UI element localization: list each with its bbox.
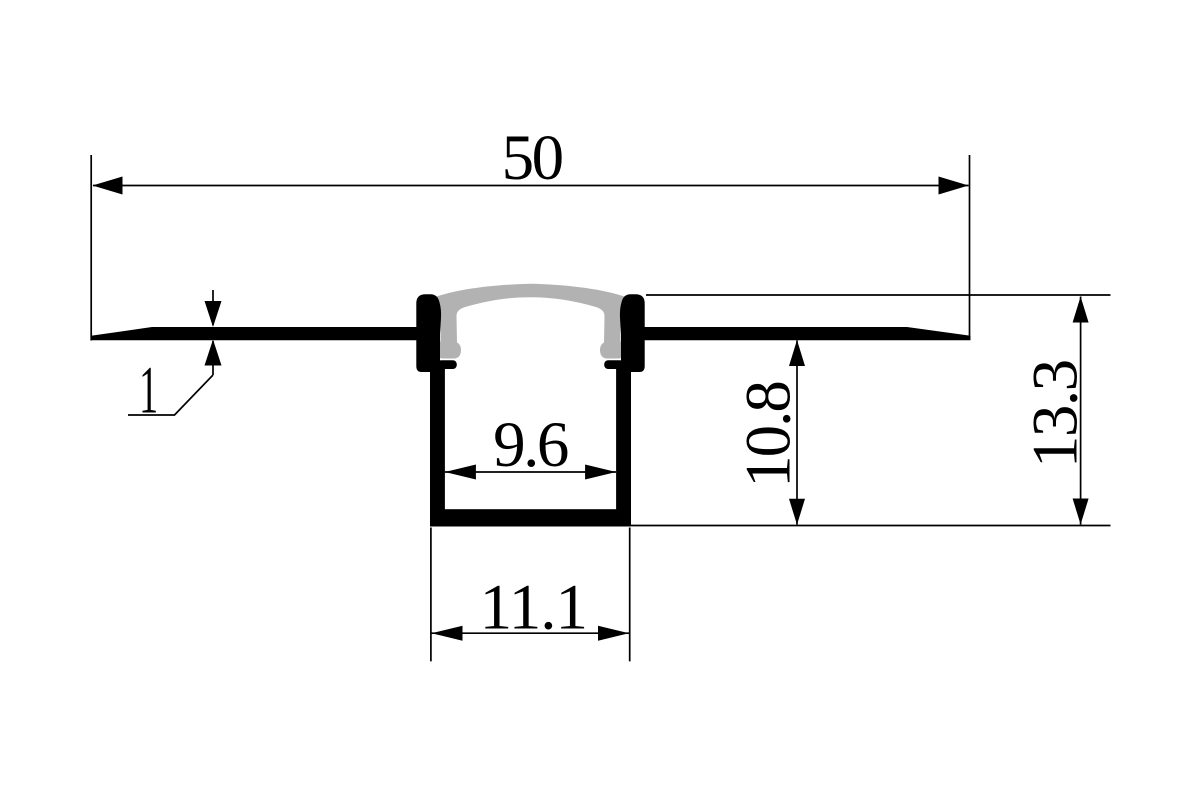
dimension 10.8: bottom arrowhead — [789, 499, 805, 525]
svg-text:11.1: 11.1 — [480, 571, 587, 643]
right retaining tab — [604, 360, 624, 369]
dimension 1: lower arrowhead — [205, 340, 222, 366]
dimension 50: left arrowhead — [93, 177, 123, 195]
left retaining tab — [437, 360, 457, 369]
dimension 13.3: top arrowhead — [1073, 297, 1089, 323]
dimension 13.3: top extension line — [646, 294, 1111, 296]
profile flange left segment — [91, 327, 441, 340]
svg-text:13.3: 13.3 — [1020, 360, 1092, 468]
dimension 50: right extension line — [969, 155, 971, 338]
right lip and neck — [620, 294, 645, 372]
dimension 13.3: dimension line — [1080, 297, 1082, 525]
dimension 1: lower arrow line — [212, 341, 214, 375]
dimension 1: leader line — [128, 375, 213, 415]
dimension 50: left extension line — [90, 155, 92, 341]
dimension 9.6: right arrowhead — [585, 465, 616, 480]
dimension 1: upper arrowhead — [205, 301, 222, 327]
dimension 13.3: bottom arrowhead — [1073, 499, 1089, 525]
dimension 1: upper arrow line — [212, 290, 214, 325]
dimension 50: right arrowhead — [939, 177, 969, 195]
left lip and neck — [416, 294, 441, 372]
svg-text:9.6: 9.6 — [493, 409, 568, 481]
dimension 11.1: dimension line — [432, 632, 630, 634]
svg-text:10.8: 10.8 — [733, 382, 805, 488]
dimension 13.3: bottom extension line — [631, 525, 1111, 527]
diffuser lens (gray cover) — [436, 284, 626, 359]
svg-text:1: 1 — [139, 352, 158, 428]
dimension 10.8: top arrowhead — [789, 340, 805, 366]
channel bottom — [430, 509, 631, 526]
dimension 11.1: left extension line — [430, 528, 432, 662]
dimension 9.6: left arrowhead — [445, 465, 476, 480]
dimension 11.1: right extension line — [629, 528, 631, 662]
left wall of channel — [430, 366, 445, 527]
svg-text:50: 50 — [502, 122, 563, 194]
dimension 50: dimension line — [93, 185, 969, 187]
dimension 9.6: dimension line — [445, 471, 616, 473]
dimension 11.1: left arrowhead — [432, 626, 463, 641]
dimension 11.1: right arrowhead — [598, 626, 629, 641]
dimension 10.8: dimension line — [796, 341, 798, 525]
right wall of channel — [616, 366, 631, 527]
profile flange right segment — [621, 327, 971, 340]
